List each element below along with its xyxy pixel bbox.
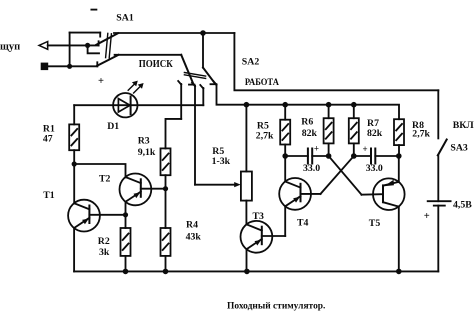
- svg-text:82k: 82k: [302, 128, 318, 139]
- transistor T5: [373, 178, 405, 210]
- wire pot bottom to T3: [245, 201, 247, 225]
- wire T2 emitter: [125, 202, 127, 215]
- transistor T3: [241, 221, 273, 253]
- wire T2 base: [141, 188, 166, 190]
- svg-text:3k: 3k: [99, 247, 110, 258]
- switch SA3: [438, 90, 447, 201]
- wire R3 bottom: [165, 175, 167, 189]
- switch SA2 arm pole2: [203, 68, 215, 84]
- resistor R8: [394, 119, 404, 145]
- svg-text:R6: R6: [301, 117, 313, 128]
- node junction dot rail R4: [163, 269, 169, 275]
- wire contact A to R3: [166, 119, 182, 148]
- resistor R1: [69, 124, 79, 150]
- wire left vertical: [69, 33, 71, 67]
- wire R5 bottom: [284, 145, 286, 157]
- svg-text:+: +: [314, 144, 319, 154]
- svg-text:+: +: [363, 144, 368, 154]
- wire T4 base: [301, 193, 321, 195]
- wire cross coupling right to T4: [321, 156, 354, 194]
- contact tick probe line end: [98, 41, 100, 45]
- switch SA1 arm lower: [97, 55, 118, 66]
- svg-text:4,5В: 4,5В: [453, 199, 472, 210]
- wire pot top: [245, 105, 247, 172]
- svg-text:SA1: SA1: [116, 12, 134, 23]
- switch SA2 contact B: [194, 86, 196, 185]
- svg-text:43k: 43k: [186, 231, 202, 242]
- wire T4 collector: [284, 156, 286, 182]
- wire rail drop right: [234, 33, 438, 90]
- wire R1 bottom: [73, 150, 75, 164]
- potentiometer R5: [241, 172, 252, 201]
- svg-text:T5: T5: [369, 218, 381, 229]
- transistor T4: [279, 178, 311, 210]
- wire top rail: [114, 32, 234, 34]
- svg-text:47: 47: [43, 134, 53, 145]
- node junction dot R1 bottom: [72, 161, 77, 166]
- transistor T2: [119, 174, 151, 206]
- svg-text:R4: R4: [186, 220, 198, 231]
- wire T5 emitter up: [398, 156, 400, 182]
- LED D1: [113, 81, 144, 118]
- svg-text:1-3k: 1-3k: [212, 156, 231, 167]
- contact tick top line end: [99, 33, 101, 37]
- resistor R3: [161, 148, 171, 175]
- contact tick square line end: [96, 62, 98, 66]
- svg-text:ПОИСК: ПОИСК: [139, 59, 174, 70]
- wire square line: [48, 65, 97, 67]
- node junction dot probe line: [85, 43, 90, 48]
- wire LED line: [74, 104, 203, 106]
- node junction dot top rail: [200, 30, 206, 36]
- wire T1 base: [89, 214, 125, 216]
- wire T3 base: [262, 235, 285, 237]
- wire R5 top: [284, 105, 286, 120]
- svg-text:щуп: щуп: [0, 42, 20, 53]
- resistor R4: [161, 228, 171, 256]
- svg-text:33.0: 33.0: [366, 163, 383, 174]
- wire R8 bottom: [398, 145, 400, 156]
- node junction dot bus R6: [326, 102, 332, 108]
- capacitor C1 33.0: [285, 149, 328, 164]
- node junction dot rail T5: [396, 269, 402, 275]
- wire to T2 collector: [74, 164, 125, 177]
- node junction dot rail T3: [244, 269, 250, 275]
- resistor R6: [324, 118, 334, 143]
- svg-text:R3: R3: [138, 135, 150, 146]
- node junction dot T2 base: [163, 186, 168, 191]
- svg-text:SA2: SA2: [242, 57, 260, 68]
- svg-text:T4: T4: [297, 218, 309, 229]
- wire T5 base: [362, 193, 384, 196]
- wire T1 emitter: [73, 228, 75, 271]
- switch SA1 arm upper: [96, 33, 118, 45]
- wire T5 collector down: [398, 207, 400, 272]
- wire R7 bottom: [353, 143, 355, 156]
- svg-text:2,7k: 2,7k: [412, 128, 430, 139]
- node junction dot R5 cap1: [282, 153, 288, 159]
- transistor T1: [68, 200, 100, 232]
- node junction dot R8 cap2: [396, 153, 402, 159]
- resistor R2: [121, 228, 131, 256]
- node junction dot T2 emitter R2: [123, 212, 128, 217]
- svg-text:33.0: 33.0: [303, 163, 320, 174]
- switch SA2 arm pole1: [181, 55, 193, 85]
- svg-text:T2: T2: [99, 174, 111, 185]
- wire R1 top: [73, 105, 75, 124]
- wire top contact line: [70, 32, 101, 34]
- node junction dot bus R7: [351, 102, 357, 108]
- minus sign: [91, 9, 96, 11]
- svg-text:ВКЛ.: ВКЛ.: [453, 120, 474, 131]
- wire R2 top: [125, 215, 127, 228]
- wire R2 bottom: [125, 256, 127, 272]
- switch SA2 contact A: [180, 84, 182, 119]
- node junction dot square line: [67, 64, 72, 69]
- wire T3 emitter: [246, 249, 248, 271]
- wire R6 bottom: [328, 143, 330, 156]
- svg-text:Походный стимулятор.: Походный стимулятор.: [227, 300, 325, 311]
- wire R4 bottom: [165, 256, 167, 272]
- svg-text:+: +: [424, 211, 430, 222]
- capacitor C2 33.0: [354, 149, 399, 164]
- probe square terminal: [41, 63, 49, 71]
- resistor R7: [349, 118, 359, 143]
- battery GB1 4.5V: [428, 201, 451, 271]
- svg-text:SA3: SA3: [450, 142, 468, 153]
- svg-text:D1: D1: [107, 121, 119, 132]
- svg-text:9,1k: 9,1k: [138, 147, 156, 158]
- resistor R5 2.7k: [280, 120, 290, 145]
- svg-text:2,7k: 2,7k: [256, 131, 274, 142]
- wire T1 collector: [73, 164, 75, 204]
- svg-text:РАБОТА: РАБОТА: [245, 77, 279, 88]
- wire probe line: [48, 44, 99, 46]
- node junction dot R7 cap2: [351, 153, 357, 159]
- wire T4 emitter down: [284, 206, 286, 236]
- wire cross coupling left to T5: [329, 156, 362, 195]
- svg-text:T1: T1: [43, 190, 55, 201]
- switch SA1 link: [106, 33, 108, 57]
- switch SA2 common pole2: [202, 33, 204, 68]
- wire POISK line: [115, 54, 182, 56]
- wire bottom rail: [74, 270, 438, 272]
- svg-text:82k: 82k: [367, 128, 383, 139]
- wire step to middle contact: [88, 45, 99, 53]
- wire pot wiper: [195, 184, 236, 186]
- switch SA2 contact D and bus: [217, 84, 400, 119]
- node junction dot rail R2: [123, 269, 129, 275]
- switch SA2 link: [184, 73, 205, 77]
- probe arrow terminal: [39, 42, 48, 50]
- wire R6 top: [328, 105, 330, 119]
- svg-text:+: +: [98, 76, 104, 87]
- svg-text:R2: R2: [98, 236, 110, 247]
- wire R7 top: [353, 105, 355, 119]
- wire R4 top: [165, 189, 167, 228]
- node junction dot R6 cap1: [326, 153, 332, 159]
- node junction dot bus pot: [244, 102, 250, 108]
- switch SA2 contact C: [202, 88, 204, 105]
- node junction dot bus R5: [282, 102, 288, 108]
